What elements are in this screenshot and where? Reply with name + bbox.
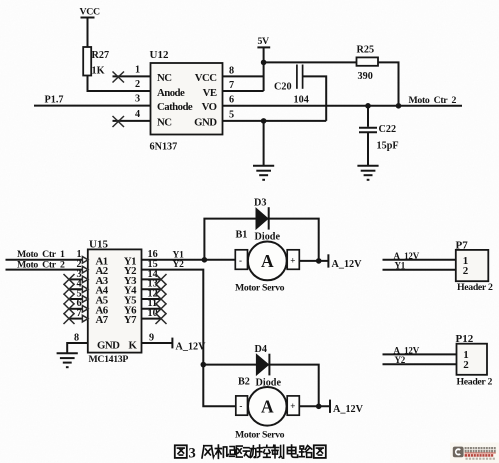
wire 5V down [263, 47, 265, 91]
svg-text:R25: R25 [357, 45, 375, 56]
no-connect X pin14 [156, 274, 167, 285]
wire P7 pin1 (A_12V) [383, 259, 456, 261]
caption char 控 [257, 445, 270, 457]
svg-text:5V: 5V [258, 36, 270, 47]
no-connect X pin3 [64, 274, 75, 285]
svg-text:A: A [261, 397, 274, 417]
wire D3 loop [204, 219, 318, 261]
svg-text:NC: NC [157, 117, 172, 129]
junction pin5/ground drop [261, 118, 267, 124]
caption char 制 [271, 445, 283, 458]
svg-text:1: 1 [135, 65, 140, 76]
wire R27 to U12 pin2 [88, 76, 151, 92]
wire U15 pin14 stub [142, 278, 161, 280]
no-connect X pin1 [113, 72, 125, 83]
junction Y2/D4 [201, 362, 207, 368]
ground (U15 pin8) [57, 353, 78, 367]
motor servo B1 [235, 242, 299, 294]
input buffer triangle pin3 [82, 276, 88, 283]
junction D3/A_12V [316, 258, 322, 264]
wire R25 to VO node [378, 62, 399, 105]
wire motor B2 to A_12V [299, 405, 329, 407]
svg-text:4: 4 [135, 109, 140, 120]
svg-text:15pF: 15pF [377, 141, 399, 152]
svg-text:A_12V: A_12V [394, 251, 420, 261]
svg-text:A_12V: A_12V [332, 259, 363, 270]
wire P12 pin1 (A_12V) [383, 353, 457, 355]
wire 5V to R25 [264, 61, 357, 63]
watermark eeworld logo [450, 443, 499, 463]
caption 图3 风机驱动控制电路图 (drawn strokes) [175, 445, 326, 461]
svg-text:K: K [129, 340, 138, 352]
svg-text:VCC: VCC [195, 72, 217, 84]
no-connect X pin5 [64, 294, 75, 305]
diode D4 [255, 344, 282, 388]
resistor R27 [83, 47, 109, 77]
svg-text:P7: P7 [456, 239, 469, 251]
wire U15 pin3 stub [69, 278, 83, 280]
svg-text:MC1413P: MC1413P [89, 354, 129, 365]
junction Y1/D3 [202, 257, 208, 263]
no-connect X pin11 [156, 303, 167, 314]
power A_12V (pin9 K) [172, 338, 206, 353]
connector P12 Header 2 [456, 333, 493, 387]
junction D4/A_12V [316, 404, 322, 410]
power 5V [257, 36, 270, 47]
input buffer triangle pin6 [82, 306, 88, 313]
svg-text:3: 3 [189, 446, 196, 462]
svg-text:D4: D4 [255, 344, 267, 355]
watermark red underline [465, 452, 496, 455]
svg-text:-: - [239, 256, 242, 266]
wire U15 pin8 to ground [67, 343, 88, 353]
input buffer triangle pin7 [82, 315, 88, 322]
svg-text:B2: B2 [238, 377, 250, 388]
no-connect X pin4 [113, 116, 125, 127]
wire P1.7 to U12 pin3 [34, 105, 151, 107]
svg-text:VCC: VCC [80, 7, 100, 18]
wire U12 pin6 VO output line [223, 105, 463, 107]
wire U15 pin12 stub [142, 298, 161, 300]
svg-text:Motor Servo: Motor Servo [235, 283, 285, 294]
svg-text:9: 9 [149, 333, 154, 344]
wire U15 pin9 to A_12V [142, 342, 173, 344]
no-connect X pin6 [64, 303, 75, 314]
svg-text:Y2: Y2 [173, 260, 185, 270]
connector P7 Header 2 [456, 239, 494, 293]
caption char 动 [243, 446, 255, 458]
wire U12 pin1 stub [113, 75, 151, 77]
caption char 驱 [230, 446, 243, 457]
wire U15 pin7 stub [69, 318, 83, 320]
no-connect X pin13 [156, 284, 167, 295]
no-connect X pin7 [64, 313, 75, 324]
junction 5V/R25 [261, 60, 267, 66]
junction VO/C22 [365, 103, 371, 109]
wire D4 loop [203, 365, 318, 407]
wire P7 pin2 (Y1) [383, 269, 456, 271]
power A_12V (B1) [328, 254, 362, 269]
watermark red url text [465, 454, 494, 457]
wire U12 pin5 to ground net [223, 120, 327, 122]
svg-text:6: 6 [229, 95, 234, 106]
svg-text:8: 8 [74, 333, 79, 344]
svg-text:1K: 1K [92, 66, 105, 77]
svg-text:3: 3 [135, 94, 140, 105]
svg-text:P1.7: P1.7 [45, 95, 64, 106]
svg-text:8: 8 [229, 66, 234, 77]
svg-text:C22: C22 [379, 124, 397, 135]
svg-text:+: + [290, 401, 295, 411]
power A_12V (B2) [330, 400, 364, 415]
svg-text:7: 7 [77, 308, 82, 319]
svg-text:7: 7 [229, 80, 234, 91]
svg-text:A: A [261, 251, 274, 271]
wire U12 pin7 to 5V rail [223, 90, 264, 92]
wire U15 pin13 stub [142, 288, 161, 290]
caption char 机 [215, 445, 228, 458]
svg-text:104: 104 [294, 95, 309, 106]
svg-text:Moto Ctr 2: Moto Ctr 2 [409, 95, 457, 106]
watermark chinese text 电子工程世界 [465, 447, 496, 452]
motor servo B2 [235, 387, 299, 441]
svg-text:GND: GND [97, 340, 120, 352]
caption char 风 [202, 446, 214, 458]
svg-text:Anode: Anode [157, 87, 185, 99]
svg-text:R27: R27 [92, 50, 110, 61]
svg-text:Moto Ctr 1: Moto Ctr 1 [17, 249, 65, 260]
svg-text:Y1: Y1 [395, 261, 406, 271]
svg-text:Motor Servo: Motor Servo [235, 430, 285, 441]
wire Moto Ctr 2 to U15 pin2 [6, 269, 84, 271]
ground (below C22) [357, 166, 378, 180]
wire U15 pin11 stub [142, 308, 161, 310]
svg-text:2: 2 [463, 359, 469, 371]
wire Y1: U15 pin16 to motor B1 [142, 259, 236, 261]
svg-text:Header 2: Header 2 [457, 282, 493, 293]
svg-text:VE: VE [203, 87, 217, 99]
svg-text:2: 2 [463, 265, 469, 277]
svg-text:390: 390 [358, 71, 373, 82]
svg-text:VO: VO [202, 101, 217, 113]
wire C22 to ground [367, 132, 369, 165]
wire P12 pin2 (Y2) [383, 363, 457, 365]
wire C20 right to GND net [303, 76, 327, 121]
ground (below 5V rail) [253, 166, 274, 180]
transistor-array U15 MC1413P body [88, 249, 142, 352]
no-connect X pin4 [64, 284, 75, 295]
caption char 图 (second) [314, 445, 326, 458]
op-amp U12 optocoupler 6N137 body [151, 63, 223, 135]
svg-text:5: 5 [229, 110, 234, 121]
wire motor B1 to A_12V [299, 260, 328, 262]
svg-text:-: - [239, 401, 242, 411]
no-connect X pin12 [156, 294, 167, 305]
caption char 电 [287, 445, 297, 457]
svg-text:A7: A7 [96, 314, 109, 326]
power VCC [80, 7, 100, 18]
input buffer triangle pin4 [82, 286, 88, 293]
svg-text:NC: NC [157, 72, 172, 84]
svg-text:D3: D3 [254, 198, 266, 209]
wire U15 pin6 stub [69, 308, 83, 310]
svg-text:Y2: Y2 [395, 355, 406, 365]
svg-text:Y7: Y7 [124, 314, 137, 326]
no-connect X pin10 [156, 313, 167, 324]
input buffer triangle pin1 [82, 257, 88, 264]
wire Y2: U15 pin15 right then down to motor B2 [142, 270, 236, 407]
svg-text:U12: U12 [150, 49, 169, 61]
svg-text:2: 2 [135, 79, 140, 90]
svg-text:A_12V: A_12V [333, 404, 364, 415]
wire U12 pin8 to 5V rail [223, 75, 264, 77]
capacitor C22 [359, 106, 399, 152]
svg-text:6N137: 6N137 [150, 142, 178, 153]
resistor R25 [357, 45, 379, 83]
caption char 图 [175, 445, 187, 458]
wire Moto Ctr 1 to U15 pin1 [6, 259, 84, 261]
svg-text:A_12V: A_12V [394, 346, 420, 356]
wire U15 pin10 stub [142, 318, 161, 320]
svg-text:P12: P12 [456, 333, 474, 345]
svg-text:U15: U15 [89, 239, 108, 251]
input buffer triangle pin2 [82, 266, 88, 273]
wire down to ground [263, 121, 265, 166]
wire U15 pin4 stub [69, 288, 83, 290]
svg-text:Header 2: Header 2 [457, 377, 493, 388]
svg-text:A_12V: A_12V [176, 342, 207, 353]
svg-text:Cathode: Cathode [157, 101, 193, 113]
watermark small gray text [466, 458, 496, 460]
svg-text:B1: B1 [236, 230, 248, 241]
junction R25/VO [396, 103, 402, 109]
svg-text:GND: GND [194, 117, 217, 129]
caption char 路 [299, 446, 311, 458]
wire U12 pin4 stub [113, 120, 151, 122]
svg-text:+: + [290, 256, 295, 266]
diode D3 [254, 198, 280, 243]
wire VCC to R27 [87, 18, 89, 48]
svg-text:C20: C20 [274, 82, 292, 93]
wire U15 pin5 stub [69, 298, 83, 300]
input buffer triangle pin5 [82, 296, 88, 303]
capacitor C20 [274, 65, 309, 106]
